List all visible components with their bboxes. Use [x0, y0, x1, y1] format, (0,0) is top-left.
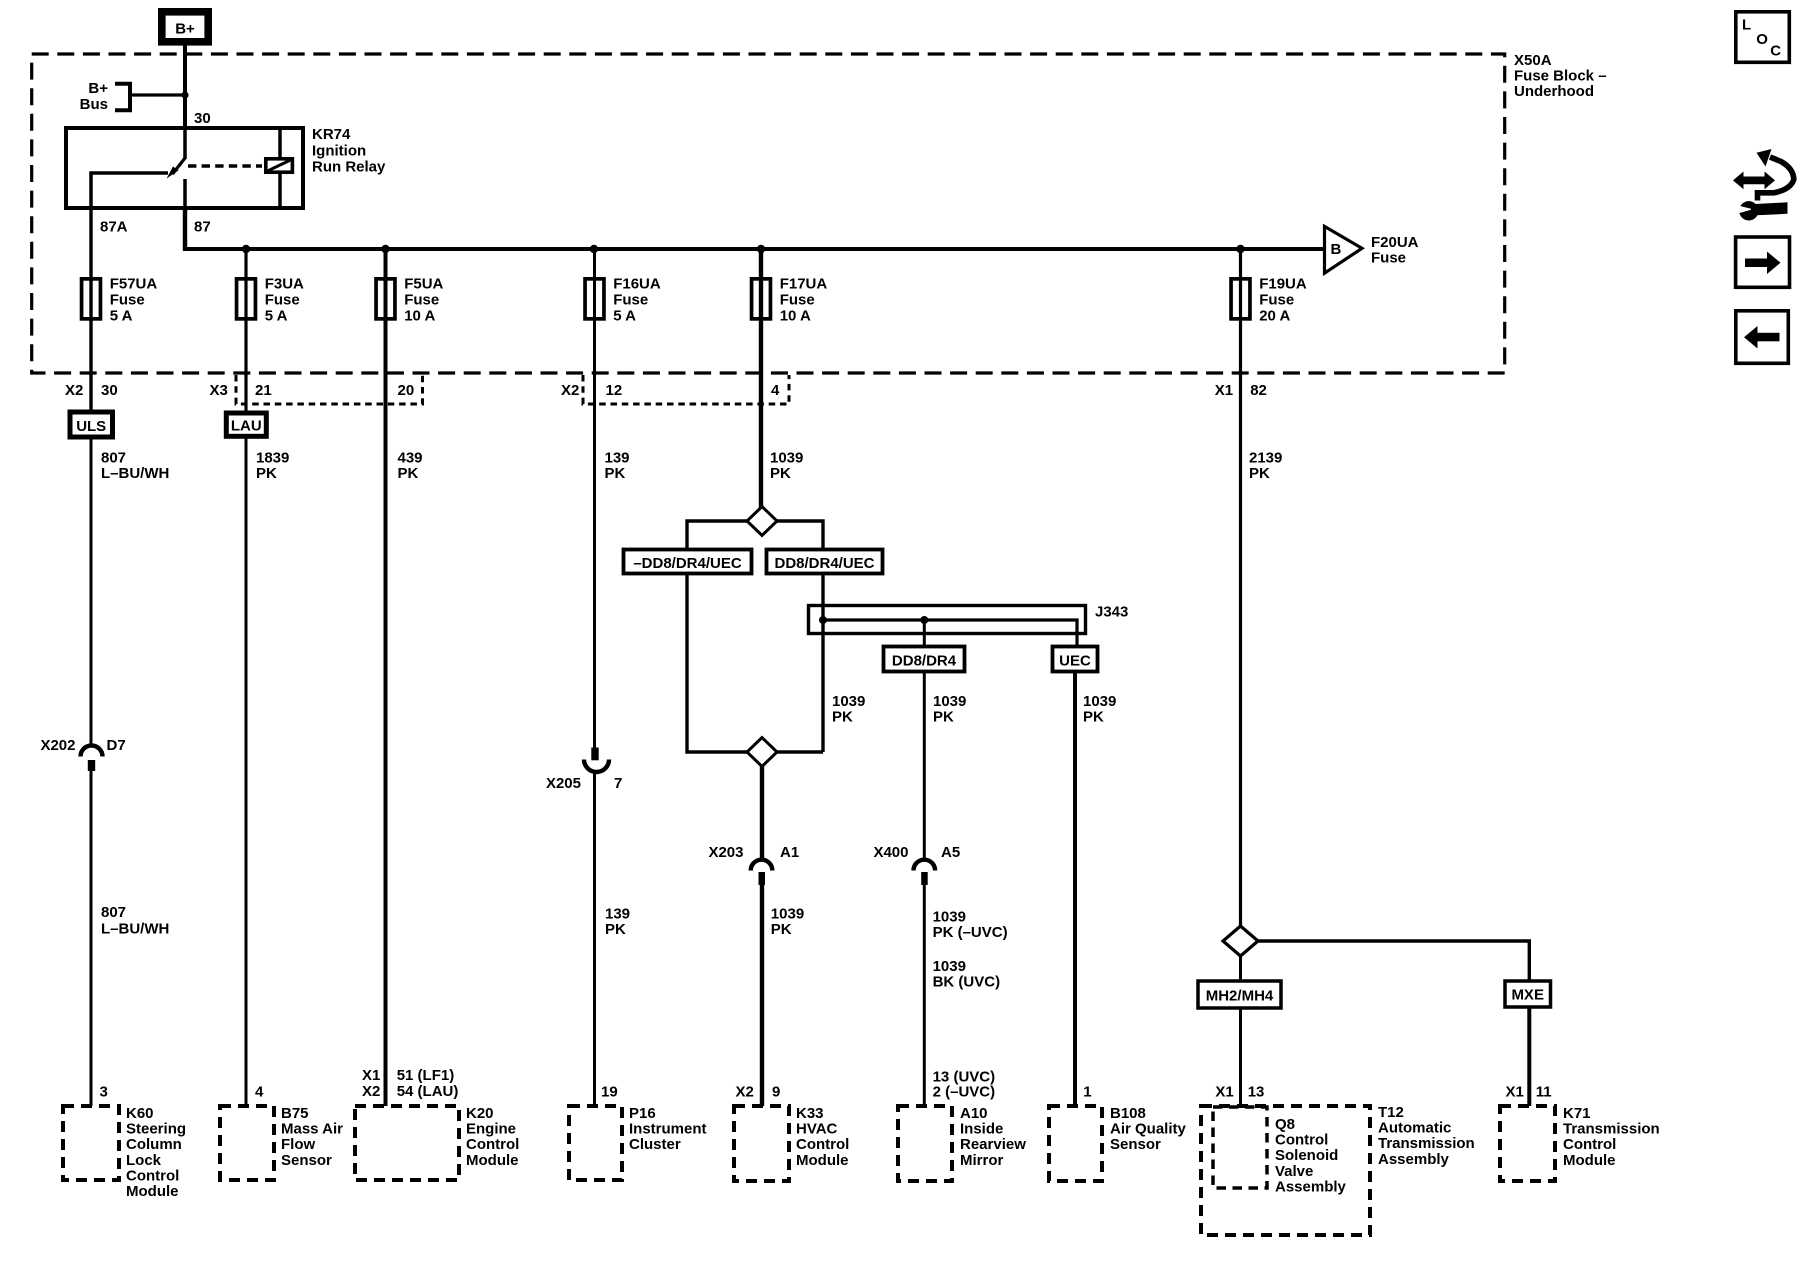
- label K60 pin 3: [100, 1084, 108, 1101]
- svg-text:A10: A10: [960, 1105, 988, 1122]
- label A10 pins 13/2: [933, 1068, 996, 1100]
- label K33 HVAC Control Module: [796, 1105, 849, 1169]
- svg-text:Sensor: Sensor: [1110, 1136, 1161, 1153]
- label X400 A5: [873, 844, 960, 861]
- svg-text:19: 19: [601, 1084, 618, 1101]
- svg-text:K20: K20: [466, 1105, 494, 1122]
- fuse F19UA: [1231, 279, 1250, 319]
- svg-text:Transmission: Transmission: [1378, 1135, 1475, 1152]
- junction dot F17UA: [757, 245, 765, 253]
- svg-text:51 (LF1): 51 (LF1): [397, 1067, 455, 1084]
- svg-text:Underhood: Underhood: [1514, 83, 1594, 100]
- svg-text:439: 439: [398, 449, 423, 466]
- component K33 HVAC Control Module dashed box: [734, 1106, 789, 1181]
- component K20 Engine Control Module dashed box: [355, 1106, 459, 1180]
- label K71 Transmission Control Module: [1563, 1105, 1660, 1169]
- svg-text:Valve: Valve: [1275, 1163, 1313, 1180]
- svg-text:87: 87: [194, 219, 211, 236]
- label P16 pin 19: [601, 1084, 618, 1101]
- svg-text:PK (–UVC): PK (–UVC): [933, 924, 1008, 941]
- svg-text:BK (UVC): BK (UVC): [933, 974, 1001, 991]
- relay coil dashed link: [188, 164, 262, 168]
- svg-text:5 A: 5 A: [110, 308, 133, 325]
- svg-text:Engine: Engine: [466, 1121, 516, 1138]
- label X203 A1: [708, 844, 799, 861]
- wire 139 X205 to P16: [593, 772, 596, 1106]
- svg-text:10 A: 10 A: [780, 308, 811, 325]
- svg-text:1: 1: [1083, 1084, 1091, 1101]
- svg-text:PK: PK: [605, 921, 626, 938]
- svg-text:7: 7: [614, 775, 622, 792]
- fuse F17UA: [752, 279, 771, 319]
- svg-text:X1: X1: [362, 1067, 380, 1084]
- svg-text:Cluster: Cluster: [629, 1136, 681, 1153]
- svg-text:139: 139: [605, 905, 630, 922]
- wire label 1039 PK: [770, 449, 803, 482]
- wire label 1839 PK: [256, 449, 289, 482]
- J343 junction dot DD8/DR4 tap: [920, 616, 928, 624]
- component B108 Air Quality Sensor dashed box: [1049, 1106, 1102, 1181]
- svg-text:B75: B75: [281, 1105, 309, 1122]
- svg-text:Mass Air: Mass Air: [281, 1121, 343, 1138]
- svg-text:Rearview: Rearview: [960, 1136, 1026, 1153]
- wire left branch to S2: [687, 574, 747, 753]
- wire label 1039 BK (UVC): [933, 958, 1001, 991]
- J343 internal bus: [823, 620, 1077, 646]
- label P16 Instrument Cluster: [629, 1105, 707, 1153]
- wire S3 to MH2/MH4: [1239, 956, 1242, 981]
- label block pin X3: [210, 382, 228, 399]
- svg-text:X2: X2: [736, 1084, 754, 1101]
- label pin 30: [194, 110, 211, 127]
- wire label 807 L-BU/WH mid: [101, 904, 169, 938]
- svg-text:PK: PK: [832, 708, 853, 725]
- label block pin 82: [1250, 382, 1267, 399]
- ignition bus: [185, 247, 1325, 251]
- svg-text:X202: X202: [40, 737, 75, 754]
- wire label 139 PK mid: [605, 905, 630, 938]
- relay switch arm: [167, 158, 186, 179]
- label X50A Fuse Block - Underhood: [1514, 52, 1607, 100]
- label F19UA 20 A: [1259, 276, 1307, 325]
- wire B+ Bus tap: [130, 93, 185, 96]
- svg-text:Fuse: Fuse: [1259, 292, 1294, 309]
- svg-text:X400: X400: [873, 844, 908, 861]
- junction block J343 box: [809, 606, 1086, 634]
- svg-text:PK: PK: [933, 708, 954, 725]
- connector code ULS: [70, 412, 113, 437]
- wire DD8/DR4 to X400: [923, 672, 926, 861]
- label block pin X1: [1215, 382, 1233, 399]
- icon diagnostic wrench: [1734, 201, 1788, 220]
- relay KR74 box: [66, 128, 303, 208]
- svg-text:DD8/DR4: DD8/DR4: [892, 653, 957, 670]
- fuse F3UA: [237, 279, 256, 319]
- svg-text:L–BU/WH: L–BU/WH: [101, 921, 169, 938]
- svg-text:Module: Module: [1563, 1152, 1616, 1169]
- svg-text:X1: X1: [1215, 1084, 1233, 1101]
- svg-text:Control: Control: [466, 1136, 519, 1153]
- svg-text:ULS: ULS: [76, 418, 106, 435]
- svg-text:21: 21: [255, 382, 272, 399]
- svg-text:PK: PK: [256, 465, 277, 482]
- label F57UA 5 A: [110, 276, 158, 325]
- svg-text:P16: P16: [629, 1105, 656, 1122]
- svg-text:Steering: Steering: [126, 1121, 186, 1138]
- svg-text:Fuse Block –: Fuse Block –: [1514, 68, 1607, 85]
- label F3UA 5 A: [265, 276, 304, 325]
- component Q8 control solenoid valve assembly outer dashed box: [1201, 1106, 1370, 1235]
- J343 junction dot left: [819, 616, 827, 624]
- svg-text:Lock: Lock: [126, 1152, 162, 1169]
- svg-text:Module: Module: [796, 1152, 849, 1169]
- svg-text:X1: X1: [1215, 382, 1233, 399]
- svg-text:–DD8/DR4/UEC: –DD8/DR4/UEC: [633, 555, 742, 572]
- svg-text:20: 20: [398, 382, 415, 399]
- connector code LAU: [226, 413, 266, 436]
- svg-text:PK: PK: [1249, 465, 1270, 482]
- wire F5UA branch 439 to K20: [384, 249, 388, 1106]
- svg-text:T12: T12: [1378, 1104, 1404, 1121]
- svg-text:PK: PK: [1083, 708, 1104, 725]
- svg-text:Module: Module: [126, 1183, 179, 1200]
- wire label 2139 PK: [1249, 449, 1282, 482]
- svg-text:PK: PK: [605, 465, 626, 482]
- svg-text:Fuse: Fuse: [110, 292, 145, 309]
- wire 807 ULS to X202: [90, 437, 93, 747]
- svg-text:4: 4: [255, 1084, 264, 1101]
- svg-text:Assembly: Assembly: [1378, 1151, 1450, 1168]
- icon forward arrow box: [1736, 237, 1790, 287]
- svg-text:1039: 1039: [1083, 693, 1116, 710]
- wire label 439 PK: [398, 449, 423, 482]
- svg-text:F20UA: F20UA: [1371, 234, 1419, 251]
- label KR74 Ignition Run Relay: [312, 126, 386, 176]
- svg-text:B+: B+: [175, 20, 195, 37]
- wire 807 X202 to K60: [90, 770, 93, 1106]
- svg-text:Fuse: Fuse: [780, 292, 815, 309]
- label block pin X2: [561, 382, 579, 399]
- svg-text:J343: J343: [1095, 604, 1128, 621]
- svg-text:11: 11: [1536, 1084, 1552, 1101]
- label F16UA 5 A: [613, 276, 661, 325]
- wire F3UA branch to LAU: [244, 249, 247, 411]
- relay switch bottom contact: [183, 179, 187, 210]
- svg-text:C: C: [1770, 43, 1781, 60]
- svg-text:5 A: 5 A: [613, 308, 636, 325]
- svg-text:KR74: KR74: [312, 126, 351, 143]
- svg-text:Fuse: Fuse: [265, 292, 300, 309]
- splice diamond S1: [747, 507, 777, 536]
- svg-text:Solenoid: Solenoid: [1275, 1147, 1338, 1164]
- label block pin 12: [606, 382, 623, 399]
- junction dot B+ bus: [181, 91, 188, 98]
- svg-text:K60: K60: [126, 1105, 154, 1122]
- power terminal B+: [162, 12, 208, 42]
- svg-text:Automatic: Automatic: [1378, 1120, 1451, 1137]
- branch wire S3 to MXE: [1258, 941, 1529, 981]
- wire label 1039 PK: [1083, 693, 1116, 726]
- connector code MXE: [1505, 981, 1551, 1007]
- svg-text:X2: X2: [561, 382, 579, 399]
- svg-text:B108: B108: [1110, 1105, 1146, 1122]
- label K60 Steering Column Lock Control Module: [126, 1105, 186, 1200]
- svg-text:Transmission: Transmission: [1563, 1121, 1660, 1138]
- svg-text:12: 12: [606, 382, 623, 399]
- svg-text:UEC: UEC: [1059, 653, 1091, 670]
- svg-text:10 A: 10 A: [404, 308, 435, 325]
- svg-text:Ignition: Ignition: [312, 142, 366, 159]
- svg-text:K71: K71: [1563, 1105, 1591, 1122]
- relay pin 30 wire stub: [183, 126, 187, 159]
- wire 1839 LAU to B75: [245, 436, 248, 1106]
- svg-text:Flow: Flow: [281, 1136, 315, 1153]
- svg-text:X2: X2: [65, 382, 83, 399]
- icon back arrow box: [1736, 311, 1789, 364]
- label A10 Inside Rearview Mirror: [960, 1105, 1026, 1169]
- B+ Bus bracket: [115, 84, 130, 111]
- wire relay 87 to bus: [183, 210, 187, 251]
- svg-text:Control: Control: [126, 1167, 179, 1184]
- connector X2 dashed outline: [583, 375, 789, 404]
- label Q8 Control Solenoid Valve Assembly: [1275, 1116, 1347, 1195]
- label F5UA 10 A: [404, 276, 443, 325]
- junction dot F3UA: [242, 245, 250, 253]
- wire label 1039 PK (-UVC): [933, 908, 1008, 941]
- wire MXE to K71: [1527, 1007, 1531, 1106]
- svg-text:O: O: [1756, 31, 1768, 48]
- svg-text:F19UA: F19UA: [1259, 276, 1307, 293]
- svg-text:Mirror: Mirror: [960, 1152, 1004, 1169]
- svg-text:2 (–UVC): 2 (–UVC): [933, 1084, 996, 1101]
- svg-text:X3: X3: [210, 382, 228, 399]
- fuse F57UA: [82, 279, 101, 319]
- splice diamond S2: [747, 738, 777, 767]
- svg-text:X205: X205: [546, 775, 581, 792]
- relay 87A contact path: [91, 173, 168, 210]
- connector X202 D7: [81, 746, 103, 772]
- svg-text:Assembly: Assembly: [1275, 1178, 1347, 1195]
- label K33 pins X2 9: [736, 1084, 781, 1101]
- label K20 pins X1 51 / X2 54: [362, 1067, 458, 1100]
- svg-text:Sensor: Sensor: [281, 1152, 332, 1169]
- svg-text:807: 807: [101, 904, 126, 921]
- svg-text:X2: X2: [362, 1083, 380, 1100]
- svg-text:PK: PK: [771, 921, 792, 938]
- label F17UA 10 A: [780, 276, 828, 325]
- label B75 pin 4: [255, 1084, 264, 1101]
- connector X203 A1: [751, 860, 773, 885]
- svg-text:B: B: [1331, 241, 1342, 258]
- svg-text:30: 30: [101, 382, 118, 399]
- relay coil: [266, 159, 293, 172]
- wire X400 to A10: [923, 884, 926, 1106]
- svg-text:Air Quality: Air Quality: [1110, 1121, 1187, 1138]
- wire B+ to relay pin 30: [183, 46, 187, 131]
- connector X400 A5: [914, 860, 936, 885]
- svg-text:Fuse: Fuse: [404, 292, 439, 309]
- connector X3 dashed outline: [236, 375, 423, 404]
- splice diamond S3: [1223, 926, 1258, 956]
- svg-text:54 (LAU): 54 (LAU): [397, 1083, 459, 1100]
- wire F17UA branch 1039: [759, 249, 763, 508]
- svg-text:Fuse: Fuse: [613, 292, 648, 309]
- svg-text:9: 9: [772, 1084, 780, 1101]
- svg-text:2139: 2139: [1249, 449, 1282, 466]
- svg-text:1039: 1039: [933, 908, 966, 925]
- svg-text:82: 82: [1250, 382, 1267, 399]
- label T12 Automatic Transmission Assembly: [1378, 1104, 1475, 1168]
- svg-text:A1: A1: [780, 844, 799, 861]
- svg-text:Bus: Bus: [80, 96, 108, 113]
- connector code MH2/MH4: [1198, 981, 1281, 1008]
- wire X203 to K33: [760, 884, 764, 1106]
- svg-text:Inside: Inside: [960, 1121, 1003, 1138]
- J343 tap wire to DD8/DR4: [923, 620, 926, 646]
- fuse F5UA: [376, 279, 395, 319]
- svg-text:1039: 1039: [933, 693, 966, 710]
- svg-text:Module: Module: [466, 1152, 519, 1169]
- wire label 139 PK: [605, 449, 630, 482]
- svg-text:139: 139: [605, 449, 630, 466]
- component B75 Mass Air Flow Sensor dashed box: [220, 1106, 274, 1180]
- label block pin 4: [771, 382, 780, 399]
- icon LOC box: [1736, 12, 1790, 63]
- relay coil terminal bottom: [278, 174, 282, 210]
- junction dot F16UA: [590, 245, 598, 253]
- label block pin 20: [398, 382, 415, 399]
- svg-text:HVAC: HVAC: [796, 1121, 838, 1138]
- svg-text:Control: Control: [1275, 1132, 1328, 1149]
- wire MH2/MH4 to Q8: [1239, 1008, 1242, 1106]
- label K20 Engine Control Module: [466, 1105, 519, 1169]
- label block pin 21: [255, 382, 272, 399]
- wire UEC to B108: [1073, 672, 1077, 1107]
- wire label 1039 PK mid: [771, 905, 804, 938]
- svg-text:87A: 87A: [100, 219, 128, 236]
- svg-text:1839: 1839: [256, 449, 289, 466]
- svg-text:13: 13: [1248, 1084, 1265, 1101]
- svg-text:F5UA: F5UA: [404, 276, 443, 293]
- label K71 pins X1 11: [1506, 1084, 1552, 1101]
- svg-text:F16UA: F16UA: [613, 276, 661, 293]
- svg-text:F17UA: F17UA: [780, 276, 828, 293]
- svg-text:DD8/DR4/UEC: DD8/DR4/UEC: [774, 555, 874, 572]
- junction dot F19UA: [1236, 245, 1244, 253]
- wire label 1039 PK: [933, 693, 966, 726]
- connector code DD8/DR4: [884, 647, 965, 672]
- wire label 1039 PK: [832, 693, 865, 726]
- wire label 807 L–BU/WH: [101, 449, 169, 482]
- label F20UA Fuse: [1371, 234, 1419, 267]
- svg-text:F3UA: F3UA: [265, 276, 304, 293]
- svg-text:Instrument: Instrument: [629, 1121, 707, 1138]
- svg-text:PK: PK: [398, 465, 419, 482]
- connector code UEC: [1053, 647, 1098, 672]
- wire right branch through J343 to S2: [777, 574, 823, 753]
- label pin 87A: [100, 219, 128, 236]
- label block pin X2: [65, 382, 83, 399]
- fuse F20UA terminal triangle: [1325, 226, 1363, 273]
- wire 87A to ULS: [89, 210, 92, 410]
- wire F19UA branch 2139: [1239, 249, 1242, 927]
- component A10 Inside Rearview Mirror dashed box: [898, 1106, 952, 1181]
- label B+ Bus: [80, 80, 109, 113]
- component K60 Steering Column Lock Control Module dashed box: [63, 1106, 119, 1180]
- connector X205: [584, 748, 609, 773]
- junction dot F5UA: [381, 245, 389, 253]
- svg-text:B+: B+: [88, 80, 108, 97]
- svg-text:L–BU/WH: L–BU/WH: [101, 465, 169, 482]
- wire F16UA branch 139 to X205: [593, 249, 596, 749]
- label J343: [1095, 604, 1128, 621]
- svg-text:MH2/MH4: MH2/MH4: [1206, 988, 1274, 1005]
- svg-text:1039: 1039: [771, 905, 804, 922]
- label B108 pin 1: [1083, 1084, 1091, 1101]
- splice pack box DD8/DR4/UEC: [767, 550, 883, 574]
- icon diagnostic curved arrow: [1757, 149, 1794, 201]
- label Q8 pins X1 13: [1215, 1084, 1264, 1101]
- svg-text:PK: PK: [770, 465, 791, 482]
- svg-text:Fuse: Fuse: [1371, 250, 1406, 267]
- svg-text:Run Relay: Run Relay: [312, 159, 386, 176]
- svg-text:Column: Column: [126, 1136, 182, 1153]
- svg-text:1039: 1039: [770, 449, 803, 466]
- svg-text:F57UA: F57UA: [110, 276, 158, 293]
- label X205 7: [546, 775, 622, 792]
- svg-text:K33: K33: [796, 1105, 824, 1122]
- icon diagnostic double arrow: [1733, 172, 1775, 190]
- svg-text:X203: X203: [708, 844, 743, 861]
- svg-text:L: L: [1742, 17, 1751, 34]
- svg-text:20 A: 20 A: [1259, 308, 1290, 325]
- svg-text:X50A: X50A: [1514, 52, 1552, 69]
- svg-text:1039: 1039: [832, 693, 865, 710]
- component K71 Transmission Control Module dashed box: [1500, 1106, 1555, 1181]
- svg-text:Q8: Q8: [1275, 1116, 1295, 1133]
- component Q8 inner connector dashed box: [1213, 1107, 1267, 1188]
- fuse block X50A dashed outline: [32, 54, 1505, 373]
- branch wires at S1: [687, 521, 823, 548]
- label B108 Air Quality Sensor: [1110, 1105, 1187, 1153]
- label pin 87: [194, 219, 211, 236]
- svg-text:X1: X1: [1506, 1084, 1524, 1101]
- svg-text:A5: A5: [941, 844, 960, 861]
- relay coil terminal top: [278, 126, 282, 157]
- svg-text:MXE: MXE: [1511, 987, 1544, 1004]
- svg-text:D7: D7: [107, 737, 126, 754]
- svg-text:30: 30: [194, 110, 211, 127]
- component P16 Instrument Cluster dashed box: [569, 1106, 622, 1180]
- fuse F16UA: [585, 279, 604, 319]
- wire S2 to X203: [760, 766, 764, 860]
- svg-text:Control: Control: [1563, 1136, 1616, 1153]
- splice pack box -DD8/DR4/UEC: [624, 550, 752, 574]
- svg-text:4: 4: [771, 382, 780, 399]
- svg-text:807: 807: [101, 449, 126, 466]
- svg-text:1039: 1039: [933, 958, 966, 975]
- svg-text:LAU: LAU: [231, 418, 262, 435]
- svg-text:3: 3: [100, 1084, 108, 1101]
- svg-text:5 A: 5 A: [265, 308, 288, 325]
- label B75 Mass Air Flow Sensor: [281, 1105, 343, 1169]
- label X202 D7: [40, 737, 125, 754]
- svg-text:Control: Control: [796, 1136, 849, 1153]
- label block pin 30: [101, 382, 118, 399]
